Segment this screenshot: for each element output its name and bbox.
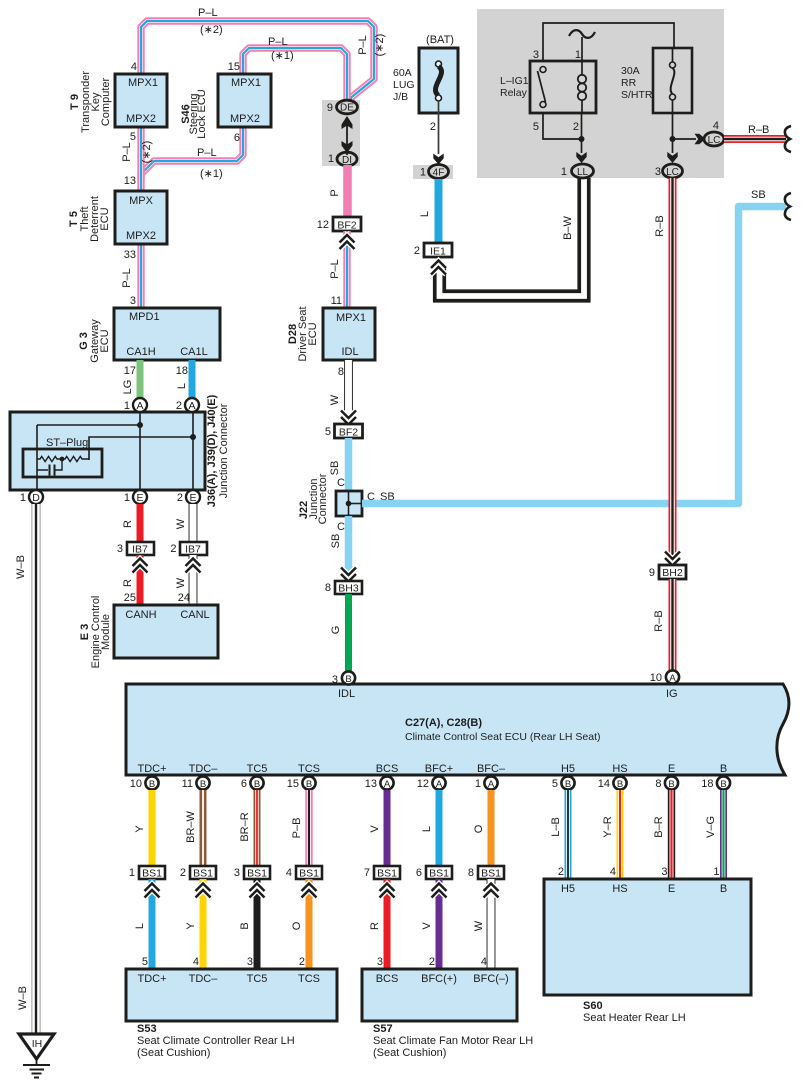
svg-text:MPX2: MPX2 (126, 230, 156, 242)
svg-text:4: 4 (193, 956, 199, 968)
svg-text:L–B: L–B (550, 817, 562, 837)
wire G from BH3 to 3B (345, 594, 352, 672)
svg-text:1: 1 (575, 49, 581, 61)
svg-text:L: L (419, 211, 431, 217)
svg-text:B: B (306, 779, 312, 790)
svg-text:9: 9 (327, 102, 333, 114)
wire P-L (*1) from S46 pin 15 to DE (243, 48, 347, 101)
svg-text:V: V (369, 825, 381, 833)
capacitor branch wire (37, 459, 62, 470)
svg-text:2: 2 (176, 400, 182, 412)
wire squiggle to relay pin 1 (581, 37, 583, 62)
svg-text:S/HTR: S/HTR (621, 89, 653, 101)
svg-text:TCS: TCS (298, 763, 320, 775)
svg-text:A: A (488, 779, 495, 790)
svg-text:BFC(+): BFC(+) (421, 973, 457, 985)
svg-text:2: 2 (430, 121, 436, 133)
wire Y TDC+ to BS1 (149, 790, 156, 867)
svg-text:1: 1 (561, 166, 567, 178)
svg-text:L: L (421, 826, 433, 832)
svg-text:B: B (720, 779, 726, 790)
svg-text:R–B: R–B (748, 124, 769, 136)
svg-text:ST–Plug: ST–Plug (46, 437, 88, 449)
svg-text:H5: H5 (561, 763, 575, 775)
connector circle 2A (185, 398, 199, 412)
svg-text:(∗2): (∗2) (141, 141, 153, 164)
arrow into LC3 (667, 152, 677, 163)
connector IE1 (424, 243, 452, 257)
svg-text:Seat Climate Controller Rear L: Seat Climate Controller Rear LH (137, 1035, 295, 1047)
wire B BS1 to S53 TC5 (254, 879, 261, 970)
svg-text:15: 15 (228, 61, 240, 73)
svg-text:Seat Climate Fan Motor Rear LH: Seat Climate Fan Motor Rear LH (373, 1035, 533, 1047)
svg-text:P–L: P–L (329, 259, 341, 279)
relay top wire (543, 23, 674, 62)
svg-text:TCS: TCS (298, 973, 320, 985)
svg-text:Y: Y (185, 922, 197, 930)
svg-text:4: 4 (481, 956, 487, 968)
svg-text:3: 3 (655, 166, 661, 178)
wire BR-W TDC- to BS1 (200, 790, 207, 867)
svg-text:8: 8 (655, 778, 661, 790)
chevron up below IB7 left (133, 559, 148, 573)
svg-text:BFC–: BFC– (477, 763, 506, 775)
fusible link symbol (436, 61, 442, 67)
svg-text:IE1: IE1 (430, 246, 446, 258)
svg-text:E: E (136, 492, 143, 504)
svg-text:TC5: TC5 (247, 973, 268, 985)
ground IH triangle (19, 1034, 54, 1059)
pin circle 5B H5 (561, 776, 574, 789)
svg-text:B–R: B–R (653, 816, 665, 837)
svg-text:18: 18 (701, 778, 713, 790)
wire W from E2 to IB7 (189, 504, 198, 543)
svg-text:MPX: MPX (129, 195, 154, 207)
svg-text:B–W: B–W (562, 215, 574, 239)
svg-text:W: W (175, 577, 187, 588)
node dot on A1 branch (137, 422, 143, 428)
svg-text:5: 5 (325, 426, 331, 438)
internal wire dot A1 to left vertical (37, 424, 140, 426)
connector circle 3B (IDL) (342, 671, 355, 684)
svg-text:BS1: BS1 (247, 868, 267, 880)
pin circle 10B TDC+ (145, 776, 158, 789)
ignition switch squiggle (569, 30, 595, 38)
arrow into LC4 (695, 134, 706, 144)
svg-text:BF2: BF2 (337, 220, 356, 232)
pin circle 11B TDC- (196, 776, 209, 789)
fusible link 60A LUG J/B box (419, 48, 458, 113)
svg-text:CA1H: CA1H (126, 346, 155, 358)
svg-text:2: 2 (180, 867, 186, 879)
svg-text:S60: S60 (583, 1000, 603, 1012)
svg-text:Lock ECU: Lock ECU (196, 89, 208, 139)
svg-text:MPX1: MPX1 (231, 77, 261, 89)
wire fuse down (672, 100, 674, 153)
wire relay pin5 to pin2 node (543, 113, 582, 139)
node dot LC branch (670, 136, 676, 142)
connector circle 1A (133, 398, 147, 412)
svg-text:P–L: P–L (121, 268, 133, 288)
svg-text:SB: SB (330, 534, 342, 549)
svg-text:ECU: ECU (307, 322, 319, 345)
wire BR-R TC5 to BS1 (254, 790, 261, 867)
gateway ECU G3 box (114, 308, 220, 360)
svg-text:Relay: Relay (500, 87, 528, 99)
grey band behind DE/DI connectors (322, 100, 360, 166)
resistor 2 (62, 456, 89, 461)
svg-text:30A: 30A (621, 65, 640, 77)
seat climate controller S53 box (126, 969, 337, 1021)
wire LG from CA1H to junction A1 (137, 360, 144, 399)
connector circle 10A (IG) (666, 670, 679, 683)
svg-text:LG: LG (122, 380, 134, 395)
J22 internal wire (348, 491, 350, 516)
svg-text:DI: DI (342, 155, 352, 166)
ST-Plug box (23, 449, 102, 477)
svg-text:E: E (668, 763, 675, 775)
svg-text:BFC+: BFC+ (425, 763, 453, 775)
svg-text:R–B: R–B (653, 610, 665, 631)
svg-text:MPX1: MPX1 (128, 77, 158, 89)
svg-text:12: 12 (417, 778, 429, 790)
svg-text:D: D (32, 492, 40, 504)
svg-text:C: C (337, 521, 345, 533)
svg-text:(BAT): (BAT) (426, 34, 454, 46)
svg-text:3: 3 (377, 956, 383, 968)
svg-text:6: 6 (241, 778, 247, 790)
wire W-B from D to IH ground (31, 504, 40, 1033)
svg-text:A: A (384, 779, 391, 790)
wire B-W from IE1 to LL (440, 178, 585, 296)
svg-text:18: 18 (176, 365, 188, 377)
svg-text:BH2: BH2 (662, 567, 683, 579)
svg-text:Connector: Connector (317, 473, 329, 524)
grey band behind 4F connector (413, 165, 453, 179)
svg-text:R: R (122, 579, 134, 587)
svg-text:(∗2): (∗2) (200, 24, 223, 36)
svg-text:SB: SB (751, 189, 766, 201)
connector 4F oval (429, 165, 449, 179)
svg-text:5: 5 (142, 956, 148, 968)
internal wire A1 to E1 (139, 412, 141, 490)
chevron up below BS1 6 (432, 884, 447, 898)
wire R-B from BH2 to 10A (669, 579, 677, 670)
pin circle 8B E (665, 776, 678, 789)
connector BH2 (659, 565, 686, 579)
svg-text:L: L (176, 383, 188, 389)
svg-text:13: 13 (124, 175, 136, 187)
svg-text:C: C (337, 477, 345, 489)
svg-text:R: R (369, 922, 381, 930)
svg-text:Junction Connector: Junction Connector (218, 403, 230, 498)
wire W BS1 to S57 BFC- (487, 879, 496, 970)
connector circle 2E (186, 490, 200, 504)
svg-text:TDC+: TDC+ (137, 763, 166, 775)
svg-text:TDC–: TDC– (189, 763, 219, 775)
wire B-R E to S60 (668, 790, 675, 880)
svg-text:3: 3 (130, 295, 136, 307)
svg-text:9: 9 (649, 567, 655, 579)
svg-text:V–G: V–G (705, 816, 717, 838)
chevron up below BF2 (340, 235, 355, 249)
wire R-B right from LC4 (724, 135, 786, 143)
connector BS1 (3) (244, 866, 270, 879)
chevron up below BS1 7 (380, 884, 395, 898)
svg-text:C27(A), C28(B): C27(A), C28(B) (405, 717, 482, 729)
svg-text:4: 4 (286, 867, 292, 879)
svg-text:(∗1): (∗1) (200, 168, 223, 180)
connector LC oval (4) (704, 132, 724, 146)
svg-text:13: 13 (365, 778, 377, 790)
connector BS1 (4) (296, 866, 322, 879)
svg-text:P–L: P–L (198, 7, 218, 19)
svg-text:Module: Module (100, 614, 112, 650)
svg-text:O: O (473, 824, 485, 833)
svg-text:2: 2 (429, 956, 435, 968)
chevron up below IE1 (431, 261, 446, 275)
svg-text:W–B: W–B (17, 986, 29, 1010)
theft deterrent ECU T5 box (115, 191, 167, 244)
svg-text:2: 2 (558, 866, 564, 878)
svg-text:3: 3 (247, 956, 253, 968)
chevron up below BS1 8 (484, 884, 499, 898)
connector BS1 (6) (426, 866, 452, 879)
wire P from DI to BF2 (343, 165, 352, 218)
svg-text:A: A (669, 673, 676, 684)
wire L BS1 to S53 TDC+ (149, 879, 156, 970)
svg-text:60A: 60A (393, 67, 412, 79)
svg-text:4F: 4F (433, 168, 445, 179)
pin circle 15B TCS (302, 776, 315, 789)
connector IB7 left (127, 542, 154, 555)
wire V BCS to BS1 (384, 790, 391, 867)
svg-text:Y–R: Y–R (602, 816, 614, 837)
relay switch contacts (540, 67, 546, 73)
svg-text:ECU: ECU (99, 207, 111, 230)
chevron up below BS1 1 (145, 884, 160, 898)
svg-text:B: B (200, 779, 206, 790)
pin circle 1A BFC- (484, 776, 497, 789)
svg-text:R–B: R–B (654, 215, 666, 236)
svg-text:IG: IG (666, 688, 678, 700)
relay coil (581, 61, 583, 75)
svg-text:B: B (254, 779, 260, 790)
svg-text:TDC+: TDC+ (137, 973, 166, 985)
wire R-B from LC3 down to BH2 (669, 178, 677, 566)
svg-text:4: 4 (610, 866, 616, 878)
chevron down above BH2 (665, 552, 680, 566)
svg-text:B: B (239, 922, 251, 929)
connector circle 1D (29, 490, 43, 504)
svg-text:14: 14 (598, 778, 610, 790)
svg-text:1: 1 (20, 492, 26, 504)
svg-text:BCS: BCS (376, 763, 399, 775)
wire Y BS1 to S53 TDC- (200, 879, 207, 970)
wire O BFC- to BS1 (488, 790, 495, 867)
steering lock ECU S46 box (218, 74, 271, 127)
connector DE oval (337, 100, 358, 114)
chevron down above BH3 (341, 568, 356, 582)
svg-text:IDL: IDL (338, 688, 355, 700)
svg-text:1: 1 (129, 867, 135, 879)
svg-text:P–L: P–L (357, 35, 369, 55)
svg-text:3: 3 (533, 49, 539, 61)
svg-text:IB7: IB7 (185, 544, 201, 556)
svg-text:BH3: BH3 (338, 583, 359, 595)
wire SB from BF2 to J22 (345, 438, 353, 492)
pin circle 18B B (717, 776, 730, 789)
wire P-L from BF2 to D28 pin 11 (343, 231, 350, 310)
svg-text:CA1L: CA1L (180, 346, 208, 358)
svg-text:BFC(–): BFC(–) (473, 973, 508, 985)
connector circle 1E (133, 490, 147, 504)
svg-text:P–L: P–L (197, 147, 217, 159)
svg-text:BR–W: BR–W (185, 810, 197, 842)
svg-text:LUG: LUG (393, 79, 415, 91)
svg-text:A: A (188, 400, 195, 412)
svg-text:B: B (345, 674, 351, 685)
resistor 1 (37, 456, 62, 461)
svg-text:P–B: P–B (291, 818, 303, 839)
svg-text:V: V (421, 922, 433, 930)
svg-text:RR: RR (621, 77, 637, 89)
svg-text:LL: LL (577, 167, 589, 178)
arrow into LL (576, 152, 586, 163)
svg-text:ECU: ECU (99, 329, 111, 352)
pin circle 6B TC5 (250, 776, 263, 789)
double arrow between DE and DI (346, 118, 348, 155)
svg-text:Computer: Computer (100, 78, 112, 127)
engine control module E3 box (114, 605, 218, 658)
svg-text:O: O (291, 921, 303, 930)
svg-text:LC: LC (666, 167, 679, 178)
svg-text:L: L (134, 923, 146, 929)
svg-text:CANL: CANL (180, 609, 209, 621)
wire to LC4 (673, 138, 697, 140)
svg-text:MPD1: MPD1 (129, 311, 160, 323)
wire relay pin2 down (581, 113, 583, 153)
svg-text:MPX2: MPX2 (230, 113, 260, 125)
relay/fuse block grey background (477, 9, 724, 178)
svg-text:2: 2 (573, 121, 579, 133)
svg-text:W: W (175, 518, 187, 529)
svg-text:L–IG1: L–IG1 (500, 75, 529, 87)
svg-text:1: 1 (328, 153, 334, 165)
svg-text:2: 2 (299, 956, 305, 968)
chevron up below BS1 4 (302, 884, 317, 898)
svg-text:8: 8 (338, 366, 344, 378)
wire P-B TCS to BS1 (305, 790, 312, 867)
svg-text:BS1: BS1 (377, 868, 397, 880)
svg-text:H5: H5 (561, 883, 575, 895)
chevron up below BS1 2 (196, 884, 211, 898)
svg-text:B: B (668, 779, 674, 790)
svg-text:BS1: BS1 (299, 868, 319, 880)
curl end of SB (785, 193, 791, 220)
wire from 60A fuse to 4F (438, 101, 440, 154)
svg-text:Y: Y (134, 825, 146, 833)
wire R from E1 to IB7 (137, 504, 144, 543)
chevron up below BS1 3 (250, 884, 265, 898)
wire Y-R HS to S60 (617, 790, 624, 880)
svg-text:G: G (330, 626, 342, 635)
connector DI oval (337, 152, 357, 166)
resistor midpoint node (60, 457, 65, 462)
svg-text:1: 1 (713, 866, 719, 878)
svg-text:IDL: IDL (341, 346, 358, 358)
svg-text:HS: HS (612, 763, 627, 775)
svg-text:B: B (720, 763, 727, 775)
svg-text:2: 2 (170, 543, 176, 555)
wire L BFC+ to BS1 (436, 790, 443, 867)
ground stem and hatches (36, 1059, 38, 1065)
connector BS1 (8) (478, 866, 504, 879)
svg-text:TDC–: TDC– (189, 973, 219, 985)
connector LL oval (572, 164, 594, 178)
junction connector J36/J39/J40 box (10, 412, 205, 490)
svg-text:6: 6 (416, 867, 422, 879)
svg-text:5: 5 (552, 778, 558, 790)
pin circle 13A BCS (380, 776, 393, 789)
svg-text:6: 6 (234, 132, 240, 144)
svg-text:BF2: BF2 (339, 427, 358, 439)
svg-text:HS: HS (612, 883, 627, 895)
svg-text:W: W (329, 394, 341, 405)
svg-text:7: 7 (364, 867, 370, 879)
connector IB7 right (180, 542, 207, 555)
svg-text:(Seat Cushion): (Seat Cushion) (137, 1047, 210, 1059)
wire R from IB7 to CANH (137, 555, 144, 606)
connector LC oval (3) (663, 164, 683, 178)
svg-text:DE: DE (340, 103, 354, 114)
svg-text:1: 1 (124, 400, 130, 412)
wire SB from J22 down to BH3 (345, 516, 353, 582)
svg-text:P–L: P–L (268, 36, 288, 48)
svg-text:11: 11 (331, 295, 342, 307)
svg-text:P: P (329, 189, 341, 196)
svg-text:J/B: J/B (393, 91, 408, 103)
wire W from IB7 to CANL (189, 555, 198, 606)
connector BF2 (12) (333, 217, 361, 231)
svg-text:CANH: CANH (125, 609, 156, 621)
pin circle 12A BFC+ (432, 776, 445, 789)
svg-text:1: 1 (420, 167, 426, 179)
svg-text:3: 3 (661, 866, 667, 878)
wire V BS1 to S57 BFC+ (436, 879, 443, 970)
svg-text:W–B: W–B (15, 555, 27, 579)
internal wire A2 to E2 (192, 412, 194, 490)
svg-text:W: W (473, 920, 485, 931)
connector BF2 (5) (335, 424, 363, 438)
svg-text:IB7: IB7 (132, 544, 148, 556)
svg-text:12: 12 (317, 219, 329, 231)
svg-text:1: 1 (475, 778, 481, 790)
svg-text:A: A (136, 400, 143, 412)
wire V-G B to S60 (720, 790, 727, 880)
svg-text:10: 10 (130, 778, 142, 790)
wire SB horizontal from J22 to right riser (362, 207, 786, 504)
svg-text:3: 3 (117, 543, 123, 555)
arrow into 4F (433, 154, 443, 165)
wire L from CA1L to junction A2 (189, 360, 196, 399)
J22 node dot (346, 501, 352, 507)
svg-text:BCS: BCS (376, 973, 399, 985)
svg-text:Seat Heater Rear LH: Seat Heater Rear LH (583, 1012, 686, 1024)
connector BS1 (1) (139, 866, 165, 879)
svg-text:5: 5 (130, 131, 136, 143)
climate control seat ECU C27/C28 box (126, 684, 789, 775)
